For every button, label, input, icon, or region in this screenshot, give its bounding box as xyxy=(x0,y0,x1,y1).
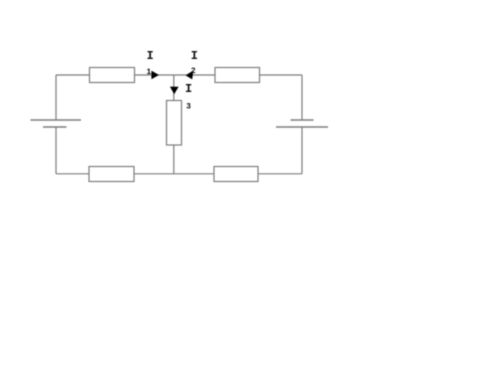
svg-text:I: I xyxy=(185,82,192,96)
svg-text:I: I xyxy=(191,49,198,63)
wire left bottom vertical xyxy=(55,127,57,174)
battery V1 long plate xyxy=(31,119,82,121)
arrow I2 (current left) xyxy=(186,70,194,79)
arrow I1 (current right) xyxy=(151,71,159,80)
battery V2 long plate xyxy=(276,126,328,128)
resistor R2 (top right) xyxy=(215,68,260,83)
svg-text:3: 3 xyxy=(186,103,191,112)
svg-text:I: I xyxy=(146,49,153,63)
wire bottom horizontal run xyxy=(56,173,302,175)
resistor R4 (bottom left) xyxy=(89,167,134,182)
resistor R3 (middle vertical) xyxy=(167,101,182,146)
resistor R5 (bottom right) xyxy=(214,167,258,182)
svg-text:2: 2 xyxy=(191,67,196,76)
resistor R1 (top left) xyxy=(90,68,135,83)
wire middle junction vertical xyxy=(173,75,175,101)
wire top horizontal run xyxy=(56,74,302,76)
arrow I3 (current down) xyxy=(170,87,179,95)
battery V1 short plate xyxy=(43,126,67,128)
wire middle lower vertical xyxy=(173,145,175,174)
wire right top vertical xyxy=(301,75,303,120)
battery V2 short plate xyxy=(291,119,314,121)
wire right bottom vertical xyxy=(301,127,303,174)
svg-text:1: 1 xyxy=(146,68,151,77)
wire left top vertical xyxy=(55,75,57,120)
